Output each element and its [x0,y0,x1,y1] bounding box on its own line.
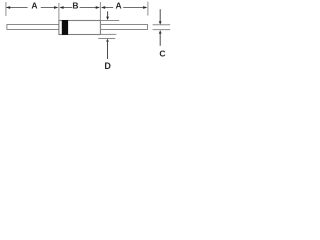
svg-text:D: D [104,61,111,71]
dimension B: arrowhead left [59,6,63,9]
label B [72,1,78,11]
extension tick body right edge [99,2,101,20]
left lead [7,25,59,30]
dimension D: lower bar [98,38,115,40]
dimension C: bottom arrowhead (up) [159,30,162,33]
label D [104,61,111,71]
right lead [101,25,148,30]
dimension D: top extension line (body top extended) [101,20,120,22]
dimension A left: line segments [6,7,55,9]
dimension B: arrowhead right [96,6,100,9]
dimension A right: line segments [104,7,144,9]
dimension C: bottom arrow shaft [159,33,161,46]
svg-text:B: B [72,1,78,11]
dimension A right: arrowhead right [143,6,147,9]
dimension D: top arrowhead (down) [106,17,109,21]
dimension C: top extension line (lead top extended) [153,24,171,26]
dimension C: top arrow shaft [159,9,161,22]
dimension D: bottom arrow shaft [107,41,109,60]
diode body [59,21,101,35]
extension tick right lead end [147,2,149,16]
extension tick left lead end [5,2,7,16]
dimension A left: arrowhead right [54,6,58,9]
label C [159,49,165,59]
svg-text:A: A [116,1,122,11]
svg-text:C: C [159,49,165,59]
dimension A left: arrowhead left [6,6,10,9]
dimension B: line segments [62,7,97,9]
dimension D: bottom extension line (body bottom extended) [101,33,117,35]
dimension C: top arrowhead (down) [159,21,162,25]
label A right [116,1,122,11]
cathode band [62,20,68,35]
dimension C: bottom extension line (lead bottom extended) [153,29,171,31]
svg-text:A: A [31,1,37,11]
extension tick body left edge [58,3,60,20]
label A left [31,1,37,11]
dimension D: bottom arrowhead (up) [106,39,109,42]
dimension D: top arrow shaft [107,11,109,18]
dimension A right: arrowhead left [101,6,105,9]
